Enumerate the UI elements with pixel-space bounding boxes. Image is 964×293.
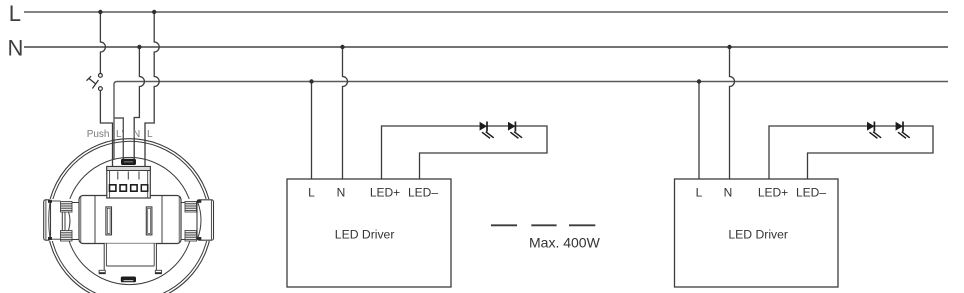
- tray left wall: [103, 244, 105, 273]
- knob screw: [121, 159, 136, 165]
- right spring top: [185, 202, 197, 213]
- N bus wire: [24, 46, 948, 48]
- svg-text:N: N: [337, 186, 346, 200]
- tray floor: [106, 265, 154, 267]
- device body circle: [66, 157, 193, 284]
- bottom connector: [121, 277, 136, 283]
- connect lines: [181, 202, 185, 204]
- wire: N bus to N terminal of dimmer (hop over L'): [134, 47, 144, 160]
- svg-text:N: N: [8, 36, 24, 61]
- body inner wall right: [161, 196, 163, 243]
- L' switched bus wire: [114, 82, 948, 160]
- claw face arc: [49, 202, 50, 239]
- junction dot on L' bus: [309, 79, 313, 83]
- terminal hole 1: [110, 185, 116, 191]
- wire: L bus to L terminal of dimmer (hops over N and L'): [145, 12, 159, 167]
- mounting ring outer circle: [47, 139, 212, 293]
- wire: driver2 LED+ loop: [769, 126, 933, 179]
- L bus wire: [24, 11, 948, 13]
- terminal hole 3: [131, 185, 137, 191]
- push button S1: [87, 74, 103, 91]
- svg-text:LED Driver: LED Driver: [335, 228, 395, 242]
- wire: driver1 LED+ loop: [382, 126, 548, 179]
- wire: push button to Push terminal: [100, 91, 112, 168]
- continuation dash 1: [491, 224, 517, 226]
- bottom tray: [99, 244, 161, 274]
- terminal hole 4: [141, 185, 147, 191]
- left claw: [44, 200, 79, 241]
- wire: N bus to driver1 N (hop over L'): [343, 47, 348, 179]
- wire: N bus to driver2 N (hop over L'): [730, 47, 735, 179]
- svg-text:LED+: LED+: [758, 186, 788, 200]
- terminal block top bar: [107, 167, 151, 171]
- LED D3: [867, 122, 881, 139]
- claw arm verticals: [61, 212, 63, 231]
- junction dot on N bus: [340, 45, 344, 49]
- tray right wall: [155, 244, 157, 273]
- left slot: [106, 207, 112, 235]
- svg-text:L: L: [9, 1, 21, 26]
- wire: L' bus to driver2 L: [698, 82, 700, 180]
- svg-text:L': L': [116, 129, 124, 140]
- right claw: [181, 200, 214, 241]
- mounting ring inner circle: [50, 141, 209, 293]
- junction dot on L bus: [152, 10, 156, 14]
- junction dot on L bus: [98, 10, 102, 14]
- continuation dash 2: [531, 224, 556, 226]
- svg-text:L: L: [147, 129, 153, 140]
- connect lines: [51, 200, 61, 202]
- device body rectangle: [79, 196, 181, 244]
- block inner walls: [109, 171, 111, 199]
- junction dot on N bus: [727, 45, 731, 49]
- tray left foot: [99, 270, 105, 273]
- terminal hole 2: [120, 185, 126, 191]
- svg-text:Max. 400W: Max. 400W: [529, 235, 601, 251]
- svg-text:N: N: [724, 186, 733, 200]
- body inner wall left: [94, 196, 96, 243]
- wire: L' bus to driver1 L: [311, 82, 313, 180]
- claw face arc: [198, 202, 202, 239]
- tray right foot: [155, 270, 161, 273]
- left spring bottom: [61, 231, 73, 242]
- LED driver 1 terminal labels: [308, 186, 438, 200]
- separator ticks: [117, 172, 119, 180]
- LED driver 2 box: [675, 179, 839, 287]
- LED D4: [896, 122, 910, 139]
- left claw cover: [43, 199, 79, 241]
- right spring bottom: [185, 231, 197, 242]
- LED D2: [508, 122, 522, 139]
- right slot: [146, 207, 152, 235]
- svg-text:LED–: LED–: [408, 186, 438, 200]
- svg-text:L: L: [308, 186, 315, 200]
- continuation dash 3: [569, 224, 595, 226]
- svg-text:L: L: [696, 186, 703, 200]
- svg-text:LED–: LED–: [796, 186, 826, 200]
- terminal block: [107, 167, 151, 199]
- right claw cover: [181, 199, 216, 241]
- LED D1: [480, 122, 494, 139]
- body edge inner lines: [80, 197, 82, 242]
- dimmer terminal labels: [87, 129, 153, 140]
- LED driver 2 terminal labels: [696, 186, 827, 200]
- svg-text:Push: Push: [87, 129, 110, 140]
- LED driver 1 box: [287, 179, 451, 287]
- wire: L bus to push button (with hop over N): [100, 12, 105, 74]
- left spring top: [61, 202, 73, 213]
- junction dot on L' bus: [697, 79, 701, 83]
- svg-text:LED+: LED+: [370, 186, 400, 200]
- junction dot on N bus: [137, 45, 141, 49]
- dimmer device U1: [43, 139, 216, 293]
- svg-text:LED Driver: LED Driver: [728, 228, 788, 242]
